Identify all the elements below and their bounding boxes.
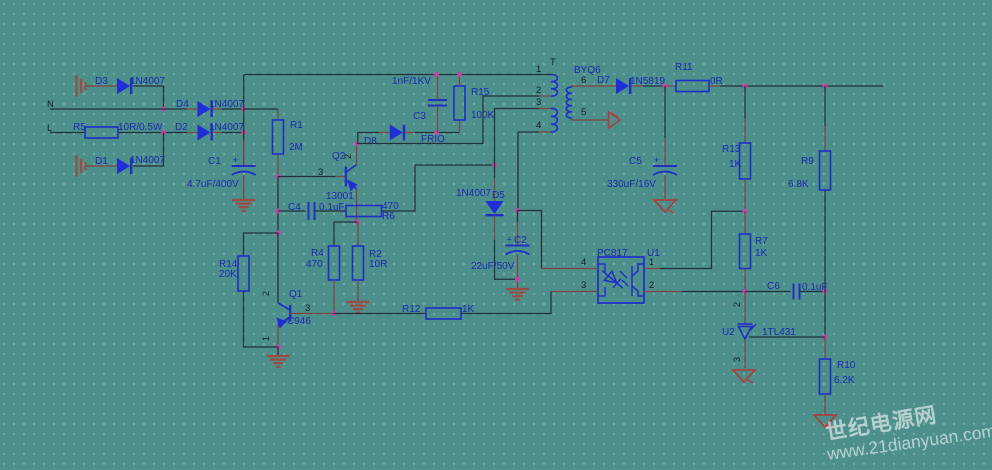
capacitor C1 (232, 165, 256, 167)
transformer T primary winding 3-4 (551, 108, 557, 132)
svg-text:22uF/50V: 22uF/50V (471, 261, 515, 272)
svg-text:1N4007: 1N4007 (130, 155, 165, 166)
svg-text:D2: D2 (175, 122, 188, 133)
svg-text:3: 3 (536, 97, 541, 108)
resistor R10 (820, 359, 831, 394)
svg-text:1N5819: 1N5819 (630, 76, 665, 87)
junction R7/C6/U2 node (743, 289, 748, 294)
wire D1 cathode up to node L (133, 133, 164, 167)
resistor R4 (329, 246, 340, 280)
wire TL431 cathode to output node (749, 336, 825, 338)
svg-text:470: 470 (306, 259, 323, 270)
resistor R5 (85, 127, 118, 138)
svg-text:U2: U2 (722, 327, 735, 338)
wire top HV rail (244, 74, 551, 76)
optocoupler U1 PC817 (598, 257, 644, 303)
ground R10 (arrow) (814, 415, 836, 427)
wire Q1 collector from C4 node (277, 233, 279, 303)
resistor R14 (238, 256, 249, 291)
resistor R1 (273, 120, 284, 154)
svg-text:1: 1 (536, 64, 541, 75)
wire D2 cathode to DC node (212, 132, 222, 134)
junction R13 top (743, 84, 748, 89)
wire R9 top (824, 86, 826, 126)
wire C2 node to U1 pin4 (518, 211, 542, 269)
diode D2 (198, 125, 211, 141)
junction Q1 emitter/R14 (276, 345, 281, 350)
svg-text:T: T (550, 57, 556, 68)
svg-text:1: 1 (649, 257, 654, 268)
transistor Q2 base pin (336, 176, 346, 178)
T pin4 pin wire (539, 131, 551, 133)
wire C3 top pin (437, 75, 439, 101)
transistor Q2 13001 (346, 165, 357, 189)
transformer T secondary winding 6-5 (566, 87, 572, 118)
ground C2 (earth) (506, 288, 529, 290)
wire D5 anode pin (494, 165, 496, 178)
T pin3 pin wire (539, 108, 551, 110)
wire C5 to ground (664, 175, 666, 199)
svg-text:R1: R1 (290, 120, 303, 131)
svg-text:6: 6 (581, 75, 586, 86)
capacitor C6 (793, 284, 795, 300)
svg-text:R12: R12 (402, 304, 421, 315)
svg-text:4: 4 (536, 120, 541, 131)
junction TL431 output node (823, 335, 828, 340)
resistor R9 (820, 151, 831, 190)
svg-text:D7: D7 (597, 75, 610, 86)
svg-text:330uF/16V: 330uF/16V (607, 179, 656, 190)
junction C6 right (823, 289, 828, 294)
wire R7 top pin (744, 211, 746, 234)
svg-text:D5: D5 (492, 190, 505, 201)
junction C2 bottom (515, 277, 520, 282)
svg-text:3: 3 (305, 303, 310, 314)
junction R14 tap (276, 231, 281, 236)
junction C5 node (663, 84, 668, 89)
svg-text:1nF/1KV: 1nF/1KV (392, 76, 431, 87)
svg-text:2: 2 (343, 154, 353, 159)
svg-text:2: 2 (261, 291, 271, 296)
wire R4 bottom to base line (333, 280, 335, 314)
capacitor C3 (428, 99, 447, 101)
wire plug2 to D1 (86, 165, 118, 167)
D2 anode pin (187, 132, 198, 134)
ground Q1 (earth) (267, 355, 290, 357)
D8 anode pin (379, 132, 390, 134)
wire R10 top pin (824, 337, 826, 359)
wire R15 bottom pin (459, 120, 461, 133)
D4 anode pin (187, 108, 198, 110)
svg-text:C3: C3 (413, 111, 426, 122)
svg-text:1N4007: 1N4007 (209, 99, 244, 110)
svg-text:PC817: PC817 (597, 248, 628, 259)
svg-text:1TL431: 1TL431 (762, 327, 796, 338)
D8 cathode pin (405, 132, 416, 134)
svg-text:R11: R11 (675, 62, 693, 73)
wire R10 bottom pin (824, 394, 826, 415)
wire R12 right to opto (461, 292, 551, 314)
wire D8 cathode to FRIO (415, 132, 460, 134)
resistor R6 (346, 206, 382, 217)
svg-text:2: 2 (649, 280, 654, 291)
wire R4 top (334, 222, 357, 246)
diode D3 (117, 78, 130, 94)
svg-text:D1: D1 (95, 156, 108, 167)
svg-text:R13: R13 (722, 144, 741, 155)
wire T pin5 to return arrow (572, 118, 608, 120)
svg-text:R9: R9 (801, 156, 814, 167)
svg-text:C5: C5 (629, 156, 642, 167)
svg-text:C946: C946 (287, 316, 311, 327)
wire base line to R12 (334, 313, 426, 315)
capacitor C2 (506, 245, 530, 247)
svg-text:1: 1 (261, 336, 271, 341)
resistor R2 (353, 246, 364, 280)
svg-text:D3: D3 (95, 76, 108, 87)
wire R2 bottom to ground (357, 280, 359, 301)
svg-text:13001: 13001 (326, 191, 354, 202)
junction R13/R7 node (743, 209, 748, 214)
svg-text:N: N (47, 99, 54, 110)
wire C3 bottom pin (437, 106, 439, 133)
junction R9 top (823, 84, 828, 89)
svg-text:R4: R4 (311, 248, 324, 259)
ground C1 (earth) (232, 199, 255, 201)
wire rectified DC vertical bus (243, 75, 245, 167)
U1 pin2 wire (644, 291, 682, 293)
wire C5 top (664, 86, 666, 138)
svg-text:6.2K: 6.2K (834, 375, 855, 386)
resistor R12 (426, 308, 461, 319)
junction D4 cathode (241, 107, 246, 112)
svg-text:3: 3 (732, 357, 742, 362)
diode D8 (390, 125, 403, 141)
svg-text:10R: 10R (369, 259, 387, 270)
AC plug connector P1 (top) (75, 76, 77, 97)
wire R13 bottom pin (744, 179, 746, 211)
svg-text:20K: 20K (219, 269, 237, 280)
svg-text:Q1: Q1 (289, 289, 303, 300)
wire C4 left (278, 210, 306, 212)
svg-text:D4: D4 (176, 99, 189, 110)
junction D5 node (492, 163, 497, 168)
diode D5 (486, 201, 504, 214)
wire Q1 emitter down (277, 325, 279, 347)
wire T pin2 to Q2 collector net (357, 96, 539, 144)
wire D5 cathode to C2 bottom node (494, 216, 496, 241)
svg-text:+: + (507, 235, 512, 245)
R11 left pin (665, 85, 676, 87)
wire C1 top pin (243, 140, 245, 166)
ground U2 (arrow) (733, 370, 755, 382)
wire Q2 emitter pin (356, 189, 358, 223)
wire T pin4 down to C2 node (518, 132, 539, 211)
svg-text:5: 5 (581, 107, 586, 118)
diode D7 (616, 78, 629, 94)
svg-text:1N4007: 1N4007 (130, 76, 165, 87)
wire TL431 ref pin down (744, 292, 746, 325)
wire R7 bottom pin (744, 269, 746, 292)
wire D3 cathode to node N (133, 86, 164, 109)
svg-text:4.7uF/400V: 4.7uF/400V (187, 179, 239, 190)
svg-text:2M: 2M (289, 142, 303, 153)
wire base node vertical (277, 177, 279, 234)
resistor R15 (454, 86, 465, 120)
wire R9 bottom to TL431 node (824, 190, 826, 337)
junction R4 bottom (332, 311, 337, 316)
junction FRIO/C3 (434, 130, 439, 135)
wire D7 cathode to C5 node (631, 85, 643, 87)
svg-text:C4: C4 (288, 202, 301, 213)
U1 pin3 wire (551, 291, 598, 293)
T pin2 pin wire (539, 95, 551, 97)
AC plug connector P2 (bottom) (75, 156, 77, 177)
svg-text:1N4007: 1N4007 (209, 122, 244, 133)
junction C4 tap (276, 209, 281, 214)
ground R2 (earth) (347, 301, 370, 303)
svg-text:4: 4 (581, 257, 586, 268)
wire C2 bottom to ground (517, 255, 519, 289)
wire Q2 collector pin (356, 144, 358, 165)
junction R15 top on rail (457, 72, 462, 77)
secondary return arrow symbol (609, 112, 621, 128)
wire R5 to D2 anode (118, 132, 187, 134)
junction C3 top on rail (434, 72, 439, 77)
svg-text:R10: R10 (837, 360, 856, 371)
ground C5 (arrow) (654, 200, 676, 212)
transformer T primary winding 1-2 (551, 74, 557, 96)
wire DC node to R1 top (244, 108, 278, 110)
R1 top pin (277, 109, 279, 120)
svg-text:6.8K: 6.8K (788, 179, 809, 190)
wire output rail (720, 85, 883, 87)
wire U1 pin1 to R13/R7 node (660, 211, 745, 268)
wire R1 bottom to Q2 base node (277, 154, 279, 177)
wire C6 left (745, 291, 791, 293)
transistor Q1 C945 (278, 303, 290, 325)
svg-text:C6: C6 (767, 281, 780, 292)
svg-text:3: 3 (318, 167, 323, 178)
svg-text:1K: 1K (755, 248, 768, 259)
diode D4 (198, 101, 211, 117)
junction R5/D1 (161, 130, 166, 135)
junction Q2 emitter node (355, 220, 360, 225)
svg-text:0R: 0R (710, 76, 723, 87)
svg-text:+: + (654, 155, 659, 165)
R11 right pin (709, 85, 720, 87)
junction C2 top node (515, 208, 520, 213)
wire R14 bottom (244, 291, 279, 347)
wire R13 top (744, 86, 746, 118)
U1 pin1 wire (644, 268, 660, 270)
capacitor C4 (308, 202, 310, 220)
svg-text:R6: R6 (382, 211, 395, 222)
wire R15 top pin (459, 75, 461, 87)
wire T pin6 to D7 (572, 86, 616, 87)
shunt regulator U2 TL431 (738, 324, 757, 339)
resistor R11 (676, 81, 709, 92)
svg-text:1N4007: 1N4007 (456, 188, 491, 199)
wire L to R5 (50, 132, 85, 134)
wire R6 right to D5 node (382, 165, 495, 211)
junction D3/N (161, 107, 166, 112)
wire R2 top (357, 222, 359, 246)
svg-text:2: 2 (732, 302, 742, 307)
junction Q2 collector node (354, 141, 359, 146)
watermark 21dianyuan (824, 402, 992, 464)
svg-text:C1: C1 (208, 156, 221, 167)
wire D4 cathode to DC node (212, 108, 222, 110)
svg-text:D8: D8 (364, 136, 377, 147)
wire base node to Q2 base (278, 176, 336, 178)
junction D2 cathode (241, 130, 246, 135)
wire Q1 base pin (290, 313, 334, 315)
wire TL431 anode down (744, 339, 746, 368)
wire C1 to ground (243, 175, 245, 199)
svg-text:10R/0.5W: 10R/0.5W (118, 122, 163, 133)
svg-text:R5: R5 (73, 122, 86, 133)
wire U1 pin2 to R7 bottom node (682, 291, 745, 293)
resistor R7 (740, 234, 751, 269)
wire Q1 emitter to ground (277, 347, 279, 355)
diode D1 (117, 158, 130, 174)
svg-text:+: + (233, 155, 238, 165)
wire N line (50, 108, 187, 110)
svg-text:2: 2 (536, 85, 541, 96)
capacitor C5 (653, 165, 677, 167)
svg-text:1K: 1K (729, 159, 742, 170)
svg-text:R7: R7 (755, 236, 768, 247)
wire C2 top pin (517, 211, 519, 223)
wire C4 right to R6 (315, 210, 347, 212)
wire R14 top (244, 233, 279, 256)
wire T pin3 to D5 net (495, 109, 540, 166)
wire D8 anode from collector node (357, 133, 379, 144)
svg-text:3: 3 (581, 280, 586, 291)
svg-text:C2: C2 (514, 235, 527, 246)
U1 pin4 wire (542, 268, 599, 270)
resistor R13 (740, 143, 751, 179)
junction R1 bottom (276, 174, 281, 179)
wire C6 right to R9 net (800, 291, 826, 293)
wire plug1 to D3 (86, 85, 118, 87)
